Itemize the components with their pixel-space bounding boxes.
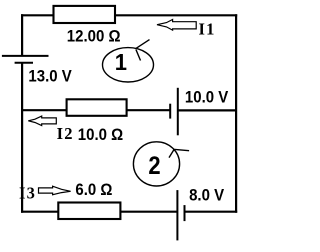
battery B1 long plate [2,55,49,57]
svg-text:1: 1 [115,50,127,76]
current arrow I1 [157,20,196,31]
loop 1 ellipse [103,48,154,82]
loop 1 arrow line [135,40,149,49]
battery B3 short plate [184,205,186,221]
resistor R3 body [58,203,120,220]
wire left upper [21,14,23,56]
svg-text:13.0 V: 13.0 V [28,68,72,86]
svg-text:8.0 V: 8.0 V [189,187,224,205]
resistor R1 body [54,6,116,23]
svg-text:10.0 V: 10.0 V [185,89,229,107]
current arrow I2 [28,116,56,126]
wire middle left [21,109,170,111]
wire top [21,14,237,16]
loop 2 arrow tick [169,149,174,157]
svg-text:12.00 Ω: 12.00 Ω [67,28,121,46]
loop 2 arrow line [173,149,189,150]
current arrow I3 [39,186,71,195]
loop 2 ellipse [133,142,179,186]
svg-text:6.0 Ω: 6.0 Ω [75,181,112,199]
wire left lower [21,63,23,213]
svg-text:I3: I3 [19,184,36,203]
resistor R2 body [67,99,127,116]
battery B3 long plate [176,190,178,240]
svg-text:2: 2 [148,153,160,181]
wire bottom left [21,211,177,213]
wire right [235,14,237,213]
svg-text:I2: I2 [57,124,74,143]
battery B2 long plate [177,88,179,136]
loop 1 arrow tick [136,50,141,61]
svg-text:I1: I1 [199,19,216,38]
svg-text:10.0 Ω: 10.0 Ω [78,127,123,145]
battery B2 short plate [169,104,171,119]
wire middle right [178,109,236,111]
wire bottom right [185,211,238,213]
battery B1 short plate [15,62,33,64]
